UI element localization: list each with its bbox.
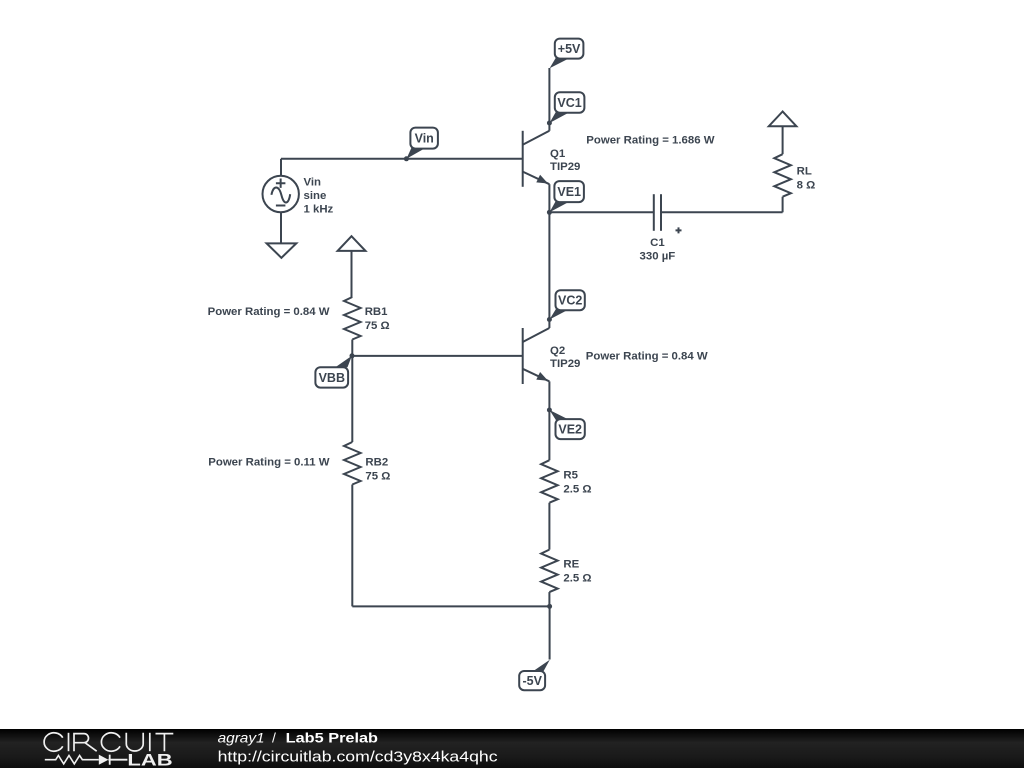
flag VC1 (550, 92, 585, 123)
logo resistor diode glyph (45, 755, 128, 765)
label RE value (563, 559, 591, 585)
wire R5 to RE (548, 503, 550, 550)
wire source bottom stem (280, 212, 282, 243)
svg-text:Lab5 Prelab: Lab5 Prelab (286, 730, 378, 746)
label RB2 value (365, 456, 390, 482)
svg-text:Vin: Vin (304, 176, 322, 188)
power flag above RL (769, 112, 797, 127)
svg-text:-5V: -5V (522, 674, 542, 688)
flag Vin (407, 128, 438, 159)
resistor RL 8ohm (774, 154, 791, 197)
node VBB dot (350, 353, 355, 358)
wire RB1 top stem (351, 251, 354, 297)
wire RE to bottom rail (548, 592, 550, 606)
svg-text:RB1: RB1 (365, 306, 388, 318)
svg-text:Power Rating = 0.84 W: Power Rating = 0.84 W (586, 351, 708, 363)
svg-text:VC2: VC2 (558, 294, 582, 308)
svg-text:75 Ω: 75 Ω (365, 320, 390, 332)
node VE1 dot (547, 210, 552, 215)
svg-text:TIP29: TIP29 (550, 358, 580, 370)
flag +5V (550, 39, 584, 69)
svg-text:C1: C1 (650, 237, 665, 249)
wire RB2 down to bottom rail (351, 485, 353, 607)
wire Q1 emitter down (548, 184, 550, 212)
wire RL bottom stem (782, 197, 784, 213)
voltage source V1 Vin sine (263, 176, 299, 212)
svg-text:Power Rating = 0.11 W: Power Rating = 0.11 W (208, 456, 329, 468)
label power rating RB2 (208, 456, 329, 468)
wire source top stem (280, 159, 282, 176)
svg-text:330 µF: 330 µF (640, 251, 676, 263)
wire RB1 to RB2 (351, 340, 353, 443)
svg-text:8 Ω: 8 Ω (797, 179, 816, 191)
node bottom rail junction dot (547, 604, 552, 609)
node VC2 dot (547, 317, 552, 322)
capacitor C1 330uF (654, 194, 682, 233)
svg-text:LAB: LAB (127, 751, 172, 768)
svg-text:VE2: VE2 (558, 423, 582, 437)
wire RL top stem (782, 126, 784, 154)
resistor RE 2.5ohm (541, 550, 558, 593)
footer title text (218, 730, 499, 766)
transistor Q1 TIP29 (523, 131, 550, 187)
node VC1 dot (547, 121, 552, 126)
wire VE2 to R5 (548, 410, 550, 460)
logo CIRCUIT letters (44, 733, 173, 751)
svg-text:Vin: Vin (415, 132, 434, 146)
svg-text:2.5 Ω: 2.5 Ω (563, 483, 591, 495)
svg-text:agray1: agray1 (218, 730, 265, 746)
wire Q2 emitter down (548, 381, 550, 410)
flag VC2 (550, 290, 585, 319)
flag VBB (315, 356, 352, 388)
transistor Q2 TIP29 (523, 328, 550, 384)
wire junction to -5V (549, 606, 551, 659)
wire bottom rail horizontal (352, 605, 549, 607)
label Q1 TIP29 (550, 148, 580, 173)
label power rating Q1 (586, 134, 714, 146)
wire emitter to C1 (549, 211, 653, 213)
svg-text:75 Ω: 75 Ω (365, 470, 390, 482)
flag VE1 (550, 181, 584, 212)
wire VBB to Q2 base (352, 355, 523, 357)
node VE2 dot (547, 408, 552, 413)
svg-text:sine: sine (304, 190, 327, 202)
label R5 value (563, 469, 591, 495)
wire main input horizontal (281, 158, 523, 160)
ground (267, 243, 297, 257)
svg-text:RE: RE (563, 559, 579, 571)
resistor RB1 75ohm (344, 297, 361, 340)
svg-text:/: / (272, 730, 276, 746)
resistor R5 2.5ohm (541, 460, 558, 503)
svg-text:1 kHz: 1 kHz (304, 204, 334, 216)
label Q2 TIP29 (550, 345, 580, 370)
label V1 value text (304, 176, 334, 215)
flag -5V (519, 660, 550, 691)
svg-text:VC1: VC1 (557, 96, 581, 110)
svg-text:VE1: VE1 (557, 185, 581, 199)
svg-text:RB2: RB2 (365, 456, 388, 468)
resistor RB2 75ohm (344, 442, 361, 485)
footer bar (0, 729, 1024, 768)
node Vin dot (404, 156, 409, 161)
label RL value (797, 165, 816, 191)
svg-text:VBB: VBB (319, 371, 345, 385)
wire +5V to collector (548, 68, 550, 131)
svg-text:Q2: Q2 (550, 345, 565, 357)
flag VE2 (550, 410, 585, 439)
label power rating RB1 (208, 306, 330, 318)
logo LAB text (127, 751, 172, 768)
svg-text:+5V: +5V (558, 42, 581, 56)
svg-text:2.5 Ω: 2.5 Ω (563, 573, 591, 585)
label power rating Q2 (586, 351, 708, 363)
wire C1 to RL (661, 211, 783, 213)
svg-text:R5: R5 (563, 469, 578, 481)
label C1 value (640, 237, 676, 263)
svg-text:TIP29: TIP29 (550, 161, 580, 173)
power flag above RB1 (338, 236, 366, 251)
svg-text:Q1: Q1 (550, 148, 566, 160)
svg-text:http://circuitlab.com/cd3y8x4k: http://circuitlab.com/cd3y8x4ka4qhc (218, 748, 499, 765)
wire VE1 to Q2 collector (548, 212, 550, 328)
svg-text:Power Rating = 0.84 W: Power Rating = 0.84 W (208, 306, 330, 318)
svg-text:Power Rating = 1.686 W: Power Rating = 1.686 W (586, 134, 714, 146)
label RB1 value (365, 306, 390, 332)
svg-text:RL: RL (797, 165, 812, 177)
